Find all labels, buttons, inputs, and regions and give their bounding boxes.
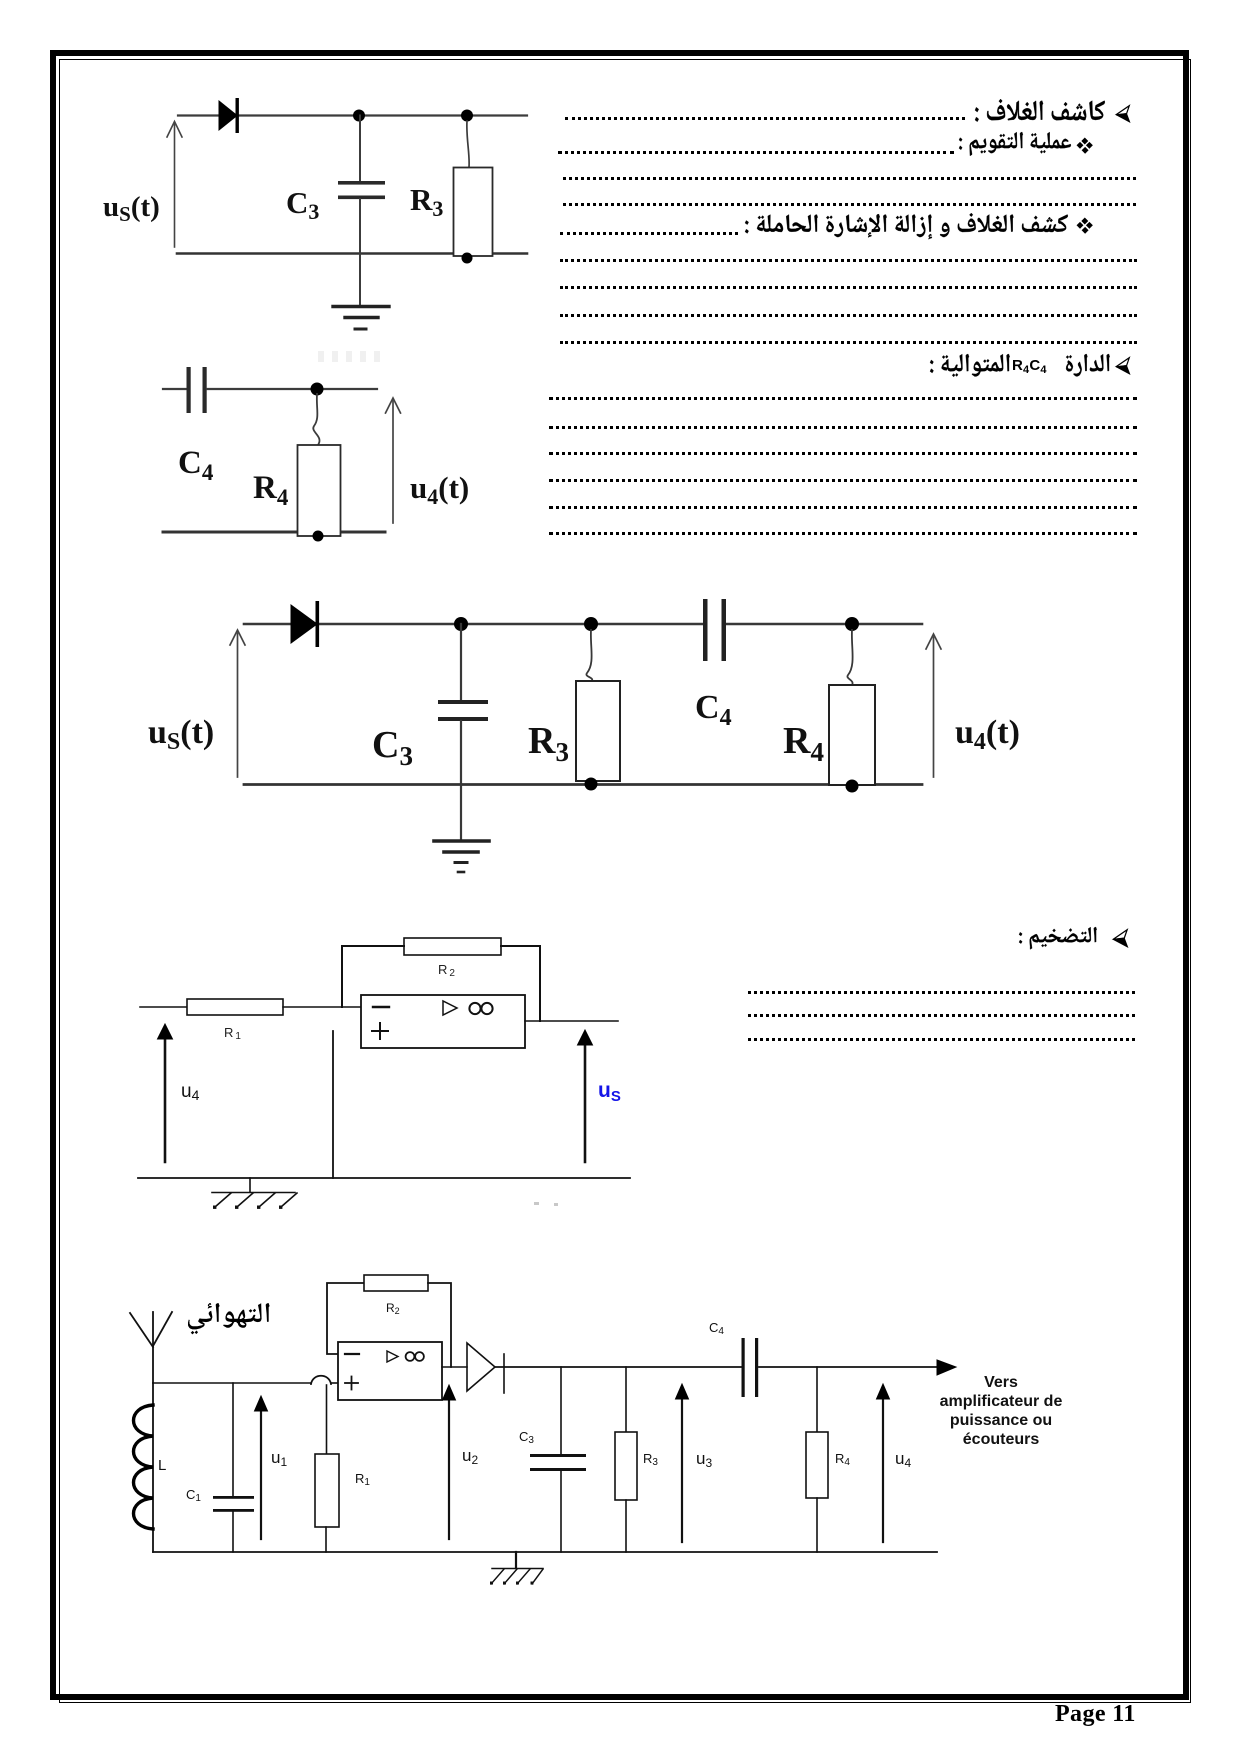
heading bullet: amplification [1112, 929, 1129, 948]
wire C3 upper lead circuit5 [560, 1367, 562, 1454]
wire hop over feedback circuit5 [311, 1376, 331, 1384]
svg-text:R3: R3 [528, 720, 569, 767]
op-amp U1 plus input circuit5 [345, 1377, 358, 1390]
svg-text:C3: C3 [286, 185, 319, 224]
svg-text:u4(t): u4(t) [410, 470, 469, 509]
op-amp U1 triangle symbol circuit5 [387, 1351, 398, 1362]
svg-text:R2: R2 [386, 1301, 400, 1316]
dotted answer line 10 [549, 397, 1137, 400]
arrow u4 circuit4 [158, 1024, 173, 1162]
wire R3 lead squiggle circuit3 [586, 630, 592, 681]
wire tank top rail circuit5 [153, 1382, 338, 1384]
node R4 bottom circuit2 [313, 531, 324, 542]
label R4 circuit5 [835, 1451, 850, 1468]
stray faint dots circuit4 [534, 1202, 558, 1206]
heading text: al-mutawaliya [930, 354, 1010, 377]
heading bullet: envelope detector [1115, 105, 1131, 123]
svg-text:C4: C4 [178, 445, 214, 485]
capacitor C1 plates circuit5 [213, 1496, 254, 1512]
label R2 circuit5 [386, 1301, 400, 1316]
wire bottom rail circuit2 [163, 531, 385, 534]
leader dots line 1 [565, 117, 965, 120]
svg-text:R2: R2 [438, 962, 457, 979]
resistor R2 body circuit4 [404, 938, 501, 955]
label C3 circuit1 [286, 185, 319, 224]
node R4 bottom circuit3 [846, 780, 859, 793]
wire top rail circuit1 [178, 114, 527, 116]
label C4 circuit2 [178, 445, 214, 485]
arrow us(t) circuit1 [167, 122, 182, 248]
dotted answer line 13 [549, 479, 1137, 482]
label R4 circuit3 [783, 720, 824, 767]
wire R3 lead [467, 121, 469, 167]
diode D circuit5 [467, 1343, 504, 1393]
label C3 circuit3 [372, 724, 413, 771]
node R3 bottom circuit3 [585, 778, 598, 791]
svg-text:u2: u2 [462, 1446, 478, 1467]
bullet diamond: amaliyat al-taqwim [1077, 138, 1093, 154]
label R4 circuit2 [253, 470, 289, 510]
label R3 circuit5 [643, 1451, 658, 1468]
resistor R3 body circuit3 [576, 681, 620, 781]
svg-text:R4: R4 [783, 720, 824, 767]
diode D circuit1 [219, 98, 239, 133]
wire feedback left circuit5 [327, 1283, 364, 1354]
wire ground lead circuit1 [359, 254, 361, 306]
ground hatch circuit4 [212, 1178, 297, 1207]
wire R1 to op-amp circuit4 [283, 1006, 361, 1008]
wire op-amp output circuit5 [442, 1366, 467, 1368]
wire R4 lower lead circuit5 [816, 1498, 818, 1552]
svg-text:R3: R3 [410, 182, 443, 221]
svg-text:u4: u4 [181, 1081, 200, 1103]
svg-text:u4(t): u4(t) [955, 714, 1020, 755]
label R1 circuit5 [355, 1471, 370, 1488]
svg-text:uS(t): uS(t) [148, 714, 214, 755]
resistor R3 body circuit5 [615, 1432, 637, 1500]
label u4(t) circuit2 [410, 470, 469, 509]
ground stub circuit5 [515, 1552, 517, 1568]
heading text: kashif al-ghilaf [975, 99, 1105, 122]
faint ghost marks [318, 351, 382, 362]
heading text: al-dara [1066, 354, 1110, 377]
inductor L coil circuit5 [134, 1405, 154, 1529]
capacitor C3 plates [338, 181, 385, 199]
wire ground lead circuit3 [460, 785, 462, 840]
svg-text:u3: u3 [696, 1449, 712, 1470]
label Vers amplificateur circuit5 [940, 1374, 1063, 1448]
wire R1 lower lead circuit5 [325, 1527, 327, 1552]
wire bottom rail circuit1 [177, 252, 527, 255]
arrow us output circuit4 [578, 1030, 593, 1162]
heading text: al-tadkhim [1019, 927, 1097, 950]
svg-text:C4: C4 [709, 1320, 724, 1337]
dotted answer line 11 [549, 426, 1137, 429]
label L circuit5 [158, 1457, 166, 1474]
wire feedback right circuit5 [428, 1283, 451, 1367]
wire left column down circuit5 [152, 1383, 154, 1552]
arrow u1 circuit5 [255, 1396, 268, 1539]
op-amp U1 body circuit4 [361, 995, 525, 1048]
svg-text:R1: R1 [224, 1025, 243, 1042]
resistor R2 body circuit5 [364, 1275, 428, 1291]
svg-text:u1: u1 [271, 1448, 287, 1469]
node R3 bottom [462, 253, 473, 264]
resistor R4 body circuit5 [806, 1432, 828, 1498]
wire C3 lower lead [359, 199, 361, 254]
svg-text:R4: R4 [253, 470, 289, 510]
dotted answer line 4 [563, 203, 1136, 206]
capacitor C4 plates circuit3 [703, 599, 726, 661]
wire C3 lower lead circuit3 [460, 721, 462, 785]
dotted answer line 15 [549, 532, 1137, 535]
op-amp U1 minus input circuit4 [373, 1006, 389, 1008]
arrow u2 circuit5 [443, 1385, 456, 1539]
wire R4 upper lead circuit5 [816, 1367, 818, 1432]
label us(t) circuit3 [148, 714, 214, 755]
wire ground rail circuit5 [153, 1551, 937, 1553]
dotted answer line 12 [549, 452, 1137, 455]
wire bottom rail circuit3 [244, 783, 922, 786]
ground hatch feet circuit5 [490, 1582, 534, 1585]
label u4(t) circuit3 [955, 714, 1020, 755]
dotted answer line 7 [560, 286, 1137, 289]
label C4 circuit3 [695, 689, 732, 731]
wire input left circuit4 [140, 1006, 187, 1008]
label C4 circuit5 [709, 1320, 724, 1337]
op-amp U1 infinity symbol circuit4 [469, 1003, 492, 1014]
ground hatch circuit5 [491, 1569, 543, 1585]
bullet diamond: kashf wa izala [1077, 218, 1093, 234]
heading text: amaliyat al-taqwim [959, 132, 1071, 156]
capacitor C3 plates circuit5 [530, 1454, 586, 1471]
leader dots line 2 [558, 151, 954, 154]
dotted answer line 6 [560, 259, 1137, 262]
op-amp U1 minus input circuit5 [345, 1353, 359, 1355]
op-amp U1 plus input circuit4 [372, 1023, 388, 1039]
page number [1055, 1701, 1136, 1728]
heading text: R4C4 [1012, 357, 1047, 376]
wire C3 upper lead circuit3 [460, 624, 462, 700]
svg-text:R4: R4 [835, 1451, 850, 1468]
wire C3 lower lead circuit5 [560, 1471, 562, 1552]
wire R3 upper lead circuit5 [625, 1367, 627, 1432]
op-amp U1 body circuit5 [338, 1342, 442, 1400]
svg-text:C3: C3 [519, 1429, 534, 1446]
arrow to amplifier circuit5 [937, 1360, 956, 1375]
wire R1 upper lead circuit5 [326, 1385, 328, 1454]
node junction C3 top [353, 110, 365, 122]
wire top rail circuit2 [207, 388, 377, 390]
wire plus input down circuit4 [332, 1031, 334, 1178]
wire feedback top-left circuit4 [342, 946, 404, 1007]
dotted answer line 9 [560, 341, 1137, 344]
svg-text:R3: R3 [643, 1451, 658, 1468]
dotted answer line 18 [748, 1038, 1135, 1041]
arrow u3 circuit5 [676, 1384, 689, 1542]
op-amp U1 triangle symbol circuit4 [443, 1001, 457, 1015]
dotted answer line 14 [549, 506, 1137, 509]
svg-text:Versamplificateur depuissance: Versamplificateur depuissance ouécouteur… [940, 1374, 1063, 1448]
label C3 circuit5 [519, 1429, 534, 1446]
capacitor C4 plates circuit5 [742, 1338, 759, 1397]
capacitor C3 plates circuit3 [438, 700, 488, 721]
ground hatch feet circuit4 [213, 1206, 282, 1209]
svg-text:R1: R1 [355, 1471, 370, 1488]
wire R3 lower lead circuit5 [625, 1500, 627, 1552]
dotted answer line 17 [748, 1014, 1135, 1017]
label C1 circuit5 [186, 1487, 201, 1504]
svg-text:C3: C3 [372, 724, 413, 771]
wire ground rail circuit4 [138, 1177, 630, 1179]
resistor R3 body [454, 168, 493, 257]
dotted answer line 16 [748, 991, 1135, 994]
dotted answer line 8 [560, 314, 1137, 317]
label u4 circuit4 [181, 1081, 200, 1103]
label us blue circuit4 [598, 1079, 621, 1105]
wire C1 lower lead circuit5 [232, 1512, 234, 1552]
node junction R4 top circuit3 [845, 617, 859, 631]
resistor R1 body circuit5 [315, 1454, 339, 1527]
wire C3 upper lead [359, 116, 361, 182]
wire output circuit4 [525, 1020, 618, 1022]
label R2 circuit4 [438, 962, 457, 979]
diode D circuit3 [291, 601, 319, 647]
wire left stub circuit2 [163, 388, 186, 390]
label us(t) circuit1 [103, 191, 160, 226]
wire R4 lead squiggle circuit3 [847, 630, 852, 685]
arrow u4(t) circuit2 [386, 398, 401, 523]
node junction R3 top circuit3 [584, 617, 598, 631]
wire C1 upper lead circuit5 [232, 1383, 234, 1496]
resistor R1 body circuit4 [187, 999, 283, 1015]
label u1 circuit5 [271, 1448, 287, 1469]
resistor R4 body circuit3 [829, 685, 875, 785]
label u2 circuit5 [462, 1446, 478, 1467]
resistor R4 body circuit2 [298, 445, 341, 536]
arrow us(t) circuit3 [230, 630, 245, 777]
label R1 circuit4 [224, 1025, 243, 1042]
label R3 circuit1 [410, 182, 443, 221]
label antenna arabic circuit5 [188, 1303, 270, 1335]
wire main output rail circuit5 [495, 1366, 939, 1368]
svg-text:uS: uS [598, 1079, 621, 1105]
node junction C3 top circuit3 [454, 617, 468, 631]
label u4 circuit5 [895, 1449, 911, 1470]
heading bullet: R4C4 series circuit [1115, 357, 1131, 375]
node junction R3 top [461, 110, 473, 122]
arrow u4(t) circuit3 [926, 634, 941, 777]
ground symbol circuit3 [434, 841, 489, 872]
svg-text:u4: u4 [895, 1449, 911, 1470]
wire top rail circuit3 [244, 623, 922, 626]
dotted answer line 3 [563, 177, 1136, 180]
arrow u4 circuit5 [877, 1384, 890, 1542]
wire R4 lead squiggle circuit2 [313, 394, 319, 445]
antenna circuit5 [130, 1312, 172, 1383]
svg-text:C1: C1 [186, 1487, 201, 1504]
svg-text:L: L [158, 1457, 166, 1474]
node junction R4 top circuit2 [311, 383, 324, 396]
op-amp U1 infinity symbol circuit5 [406, 1352, 424, 1361]
wire feedback top-right circuit4 [501, 946, 540, 1021]
label R3 circuit3 [528, 720, 569, 767]
svg-text:C4: C4 [695, 689, 732, 731]
leader dots line 5 [560, 232, 738, 235]
heading text: kashf al-ghilaf wa izalat al-ishara [745, 213, 1068, 240]
ground symbol circuit1 [333, 307, 389, 330]
svg-text:uS(t): uS(t) [103, 191, 160, 226]
label u3 circuit5 [696, 1449, 712, 1470]
capacitor C4 plates circuit2 [187, 367, 207, 413]
